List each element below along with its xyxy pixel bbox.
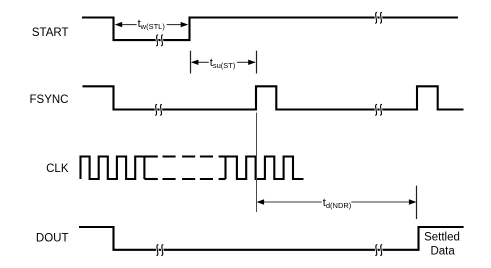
break mark DOUT low line right bbox=[375, 245, 382, 256]
svg-text:Data: Data bbox=[430, 246, 455, 258]
break mark FSYNC low line right bbox=[375, 104, 382, 115]
svg-text:CLK: CLK bbox=[46, 163, 69, 175]
dimension t_w(STL) arrow bbox=[115, 18, 189, 31]
dimension t_su(ST) right tick bbox=[256, 51, 258, 74]
wire CLK left stub low bbox=[144, 178, 157, 180]
break mark START low line bbox=[156, 35, 163, 46]
wire CLK dashed low rail bbox=[163, 178, 214, 180]
wire vertical reference line at FSYNC rise bbox=[256, 113, 258, 212]
wire CLK dashed high rail bbox=[163, 155, 214, 157]
wire CLK right stub low bbox=[219, 178, 226, 180]
dimension t_d(NDR) arrow bbox=[257, 197, 417, 210]
dimension t_su(ST) left tick bbox=[190, 51, 192, 74]
svg-text:DOUT: DOUT bbox=[36, 233, 69, 245]
break mark START high line bbox=[375, 12, 382, 23]
break mark DOUT low line left bbox=[156, 245, 163, 256]
wire CLK right bracket vertical bbox=[224, 157, 226, 180]
wire CLK solid section right bbox=[226, 157, 304, 180]
wire DOUT waveform bbox=[79, 227, 464, 250]
break mark FSYNC low line left bbox=[155, 104, 162, 115]
wire FSYNC waveform bbox=[83, 86, 464, 109]
svg-text:FSYNC: FSYNC bbox=[30, 94, 69, 106]
svg-text:Settled: Settled bbox=[424, 232, 460, 244]
wire CLK solid section left bbox=[81, 157, 145, 180]
svg-text:START: START bbox=[32, 27, 69, 39]
wire CLK right stub high bbox=[219, 155, 226, 157]
wire CLK left stub high bbox=[144, 155, 157, 157]
dimension t_su(ST) arrow bbox=[191, 57, 256, 70]
dimension t_d(NDR) right tick bbox=[416, 186, 418, 219]
wire START waveform bbox=[82, 18, 458, 41]
